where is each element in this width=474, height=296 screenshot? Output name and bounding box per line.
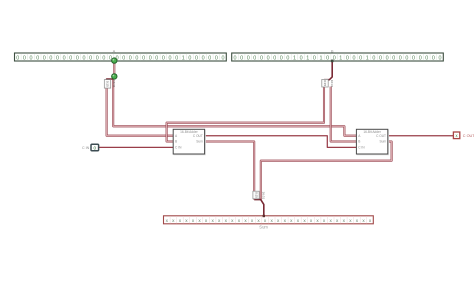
wire splitter connector under A tags xyxy=(107,78,115,83)
svg-text:0:15: 0:15 xyxy=(323,80,327,86)
svg-text:16:31: 16:31 xyxy=(330,80,334,88)
wire A-low bus: splitter left leg to adder1 pin A xyxy=(107,88,174,136)
svg-text:0: 0 xyxy=(94,145,97,150)
svg-text:C IN: C IN xyxy=(175,146,182,150)
svg-text:C IN: C IN xyxy=(358,146,365,150)
svg-text:Sum: Sum xyxy=(196,140,203,144)
wire merged Sum bus from splitter down into Sum array xyxy=(254,200,264,217)
svg-text:C OUT: C OUT xyxy=(193,134,203,138)
input bit array A xyxy=(15,53,227,61)
node Sum array connection stub xyxy=(263,215,265,217)
subcircuit U2 16-Bit Adder (high word) xyxy=(356,129,388,155)
svg-text:B: B xyxy=(331,48,334,53)
svg-text:16:31: 16:31 xyxy=(112,80,116,88)
node A array connection (green) xyxy=(112,58,117,63)
node A wire anchor (green) xyxy=(112,74,117,79)
svg-text:0:15: 0:15 xyxy=(106,81,110,87)
wire A-high bus: splitter right leg across to adder2 pin A xyxy=(113,79,356,136)
svg-text:0:15: 0:15 xyxy=(254,192,258,198)
wire Sum-high bus: adder2 Sum output down, left, to merge splitter xyxy=(261,142,392,200)
wire C In input to adder1 C IN xyxy=(99,146,174,148)
wire B-high bus: splitter right leg to adder2 pin B xyxy=(331,87,357,142)
svg-text:B: B xyxy=(175,140,177,144)
wire carry: adder1 C OUT to adder2 C IN xyxy=(204,136,356,148)
splitter B bit-range tag 0:15 xyxy=(322,79,328,87)
subcircuit U1 16-Bit Adder (low word) xyxy=(173,129,205,155)
wire Sum-low bus: adder1 Sum output down to merge splitter xyxy=(204,142,254,200)
svg-text:C IN: C IN xyxy=(82,146,90,150)
node B array connection stub xyxy=(331,60,334,63)
input pin C In xyxy=(91,144,99,151)
svg-text:B: B xyxy=(358,140,360,144)
svg-text:Sum: Sum xyxy=(259,225,268,230)
svg-text:C OUT: C OUT xyxy=(463,134,474,138)
wire adder2 C OUT to output pin xyxy=(388,135,453,137)
wire B-low bus: splitter left leg, across top to adder1 pin B xyxy=(167,87,324,142)
wire A input bus from array A node to splitter xyxy=(113,61,115,78)
svg-text:16:31: 16:31 xyxy=(261,192,265,200)
svg-text:Sum: Sum xyxy=(379,140,386,144)
merge splitter tag 0:15 xyxy=(253,191,259,199)
svg-text:C OUT: C OUT xyxy=(376,134,386,138)
wire B input bus from array B down to splitter xyxy=(324,61,332,80)
output bit array Sum xyxy=(164,216,374,224)
splitter A bit-range tag 0:15 xyxy=(104,80,110,89)
svg-text:A: A xyxy=(113,48,116,53)
output pin C Out xyxy=(453,132,459,139)
input bit array B xyxy=(232,53,444,61)
